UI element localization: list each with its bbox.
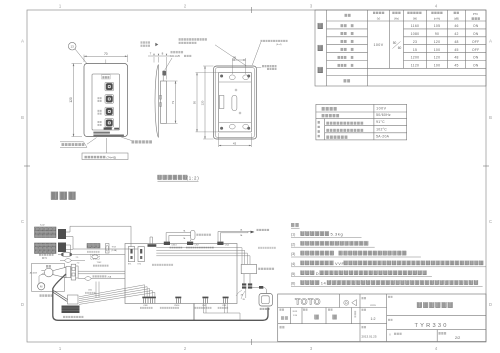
- svg-text:(1): (1): [291, 233, 295, 237]
- company cell: [389, 332, 402, 335]
- svg-text:B: B: [489, 115, 492, 120]
- opening cross bars: [219, 82, 252, 122]
- svg-text:5.3kg: 5.3kg: [331, 232, 344, 237]
- reel disc: [66, 267, 71, 278]
- svg-text:120: 120: [434, 40, 441, 44]
- svg-text:45: 45: [454, 48, 458, 52]
- svg-text:90: 90: [435, 32, 439, 36]
- dimension back box outer height: [200, 66, 213, 139]
- labels above back box: [179, 38, 247, 66]
- svg-text:100V: 100V: [374, 43, 384, 47]
- svg-text:48: 48: [454, 56, 458, 60]
- pcb bottom connector CN5: [202, 297, 208, 304]
- note (4): [291, 261, 486, 267]
- svg-text:120: 120: [200, 100, 204, 105]
- wire: ionizer to CN7: [190, 240, 192, 242]
- svg-text:43: 43: [233, 141, 237, 145]
- date cell: [362, 326, 377, 338]
- button 4 side label: [98, 121, 102, 123]
- svg-text:KT1: KT1: [128, 263, 131, 265]
- relay labels: [128, 263, 141, 265]
- note (3): [291, 251, 421, 257]
- button 2: [105, 95, 114, 104]
- svg-text:(dB): (dB): [454, 17, 459, 21]
- svg-text:1080: 1080: [411, 32, 420, 36]
- svg-text:ON: ON: [473, 24, 479, 28]
- pcb bottom labels: [140, 305, 228, 309]
- svg-text:(4): (4): [291, 262, 295, 266]
- heater 2 (PTC): [35, 243, 57, 254]
- svg-text:T102: T102: [97, 262, 103, 264]
- svg-text:1200: 1200: [411, 56, 420, 60]
- wiring title kessen-zu: [51, 192, 75, 200]
- main cord (bold wire): [53, 274, 268, 320]
- side view labels (cap top): [141, 41, 159, 46]
- power transformer: [241, 264, 274, 273]
- svg-text:B: B: [21, 115, 24, 120]
- svg-text:48: 48: [454, 40, 458, 44]
- label screws 2pcs: [254, 65, 277, 70]
- ionizer: [191, 230, 211, 239]
- svg-text:102°C: 102°C: [376, 127, 387, 131]
- secondary connectors: [242, 283, 252, 288]
- svg-text:(3): (3): [291, 252, 295, 256]
- pcb connector CN13: [164, 242, 170, 245]
- remarks cell: [280, 326, 285, 328]
- pcb board outline: [125, 244, 237, 304]
- note (5): [291, 271, 432, 277]
- heater 2 connector: [58, 243, 66, 253]
- svg-text:50/60Hz: 50/60Hz: [376, 113, 391, 117]
- svg-text:M4.1×25: M4.1×25: [171, 55, 181, 58]
- svg-text:91°C: 91°C: [376, 120, 385, 124]
- remote unit: [259, 294, 273, 307]
- svg-text:(5): (5): [291, 272, 295, 276]
- board fuse hatched: [87, 244, 100, 253]
- side profile plate: [155, 65, 158, 138]
- svg-text:ON: ON: [473, 64, 479, 68]
- remote front panel: [92, 74, 120, 130]
- cord to stepper motor: [54, 291, 68, 300]
- svg-text:TOTO: TOTO: [295, 296, 321, 306]
- wires CN5/CN3 down: [203, 304, 240, 320]
- svg-text:M: M: [40, 285, 43, 289]
- pcb nested bus wires: [156, 248, 250, 265]
- dimension 43: [219, 133, 252, 147]
- pcb bottom connector CN3: [223, 297, 229, 304]
- svg-text:(2): (2): [291, 242, 295, 246]
- svg-text:KT2: KT2: [138, 263, 141, 265]
- svg-text:13: 13: [71, 45, 75, 49]
- table: ratings/safety: [316, 104, 407, 139]
- label remote: [260, 308, 270, 310]
- center mark remote top: [105, 60, 107, 64]
- wire: heater 2 feed b: [66, 249, 73, 251]
- side slot: [219, 96, 224, 109]
- side screw: [162, 71, 166, 76]
- name cell: [388, 296, 453, 308]
- dimension 120 (front height): [69, 64, 82, 137]
- wall box (side): [160, 76, 167, 123]
- pcb connector CN4: [217, 242, 223, 245]
- label stepper motor: [63, 316, 83, 318]
- svg-text:(V): (V): [377, 17, 381, 21]
- svg-text:100V: 100V: [376, 106, 386, 110]
- balloon 13: [68, 42, 89, 66]
- svg-text:5A-20A: 5A-20A: [376, 134, 390, 138]
- svg-text:D: D: [489, 302, 492, 307]
- svg-text:mm: mm: [371, 303, 376, 307]
- caption remote appearance 1:2: [158, 175, 200, 181]
- thermal fuse symbols: [58, 252, 125, 257]
- scale cell: [362, 308, 376, 320]
- svg-text:S-02: S-02: [40, 225, 45, 227]
- back box opening: [219, 73, 252, 132]
- note (1): [291, 231, 362, 237]
- terminal bar: [71, 264, 78, 280]
- spec table labels: [322, 107, 364, 139]
- transformer secondary wires: [243, 274, 245, 284]
- dimensions 7 and 8: [148, 52, 171, 80]
- wires: terminal to pcb: [78, 270, 125, 272]
- svg-text:70: 70: [104, 52, 108, 56]
- thermal fuse lower: [60, 259, 85, 263]
- table remark row: [344, 79, 351, 82]
- svg-text:2/2: 2/2: [455, 336, 460, 340]
- remote mounting hole note box: [82, 153, 128, 160]
- heater 1 (PTC): [35, 227, 57, 238]
- svg-text:(6): (6): [291, 282, 295, 286]
- pcb bottom connector CN8 (comb): [142, 297, 156, 304]
- note (2): [291, 241, 375, 247]
- dimension 70 (front width): [84, 52, 128, 62]
- dimension 73 (box height): [167, 81, 178, 123]
- svg-text:TYR330: TYR330: [415, 323, 449, 329]
- svg-text:1160: 1160: [411, 24, 420, 28]
- wire: heater bus 2: [66, 237, 138, 250]
- svg-text:T913: T913: [112, 247, 116, 249]
- svg-text:1:2: 1:2: [371, 317, 376, 321]
- svg-text:91°C: 91°C: [42, 258, 47, 260]
- wire gauge callouts: [236, 290, 246, 301]
- svg-text:(Hz): (Hz): [394, 17, 399, 21]
- svg-text:ON: ON: [473, 32, 479, 36]
- wire: motor leads: [39, 273, 45, 283]
- pcb connector labels top: [170, 245, 276, 249]
- stepper motor box: [68, 295, 79, 304]
- mounting holes: [229, 75, 248, 129]
- svg-text:120: 120: [69, 97, 73, 103]
- svg-text:(1:2): (1:2): [187, 175, 200, 180]
- label thermistor: [257, 229, 270, 231]
- body fine print: [93, 132, 124, 137]
- plug: [41, 268, 53, 277]
- part number cell: [388, 319, 449, 330]
- pcb bottom connector CN16: [175, 297, 181, 304]
- label trans primary: [152, 264, 173, 266]
- svg-text:A: A: [21, 39, 24, 44]
- svg-text:1120: 1120: [411, 64, 420, 68]
- svg-text:23: 23: [413, 40, 417, 44]
- svg-text:50: 50: [393, 41, 397, 45]
- svg-text:100: 100: [434, 48, 441, 52]
- svg-text:ON: ON: [473, 56, 479, 60]
- svg-text:42: 42: [454, 32, 458, 36]
- spec table safety col (vertical): [318, 121, 320, 137]
- svg-text:95: 95: [192, 101, 196, 105]
- label product number: [121, 137, 152, 143]
- thermal fuse 102C (dashed box): [91, 254, 109, 266]
- wire: heater bus 1: [66, 226, 131, 246]
- svg-text:OFF: OFF: [472, 40, 480, 44]
- svg-text:(m³/h): (m³/h): [434, 18, 441, 21]
- table headers: [345, 11, 480, 20]
- svg-text:D: D: [21, 302, 24, 307]
- wire bundle stepper to pcb: [79, 285, 155, 305]
- panel top label: [102, 75, 111, 79]
- relay KT1: [128, 247, 134, 262]
- svg-text:45: 45: [454, 64, 458, 68]
- panel bottom logo marks: [104, 127, 119, 129]
- svg-text:25A: 25A: [108, 276, 112, 279]
- thermal fuse label 91C: [39, 253, 54, 260]
- current fuse 25A: [78, 275, 125, 280]
- wire: heater 2 feed a: [66, 245, 71, 255]
- dimension 36: [232, 56, 245, 74]
- svg-text:PTC: PTC: [473, 12, 478, 16]
- svg-text:A: A: [489, 39, 492, 44]
- label fan motor: [40, 294, 53, 296]
- back box outer: [214, 66, 257, 139]
- label free-dial (callout box): [60, 138, 97, 148]
- svg-text:CN13: CN13: [171, 245, 177, 247]
- projection symbol: [344, 300, 357, 306]
- svg-text:( ): ( ): [389, 334, 391, 336]
- pcb inner connector block: [148, 244, 157, 247]
- dimension back box inner height: [192, 73, 218, 132]
- board fuse 1.6A: [106, 244, 118, 254]
- power section box: [32, 264, 65, 292]
- spec table values: [376, 106, 391, 138]
- svg-text:60: 60: [398, 46, 402, 50]
- svg-text:100: 100: [434, 64, 441, 68]
- stepper motor body: [62, 306, 80, 314]
- svg-text:46: 46: [454, 24, 458, 28]
- wire: fan motor leads to CN1: [96, 282, 99, 298]
- svg-text:2013.01.25: 2013.01.25: [362, 334, 377, 338]
- cord reel horn: [53, 267, 66, 277]
- label dengen: [46, 265, 51, 267]
- svg-text:C: C: [21, 219, 24, 224]
- table: characteristics (tokusei-hyo): [315, 10, 486, 86]
- wire: connector drop: [245, 289, 247, 298]
- corner screws: [220, 75, 250, 130]
- wires into pcb inner connector: [150, 237, 153, 244]
- title block: [278, 294, 486, 342]
- svg-text:D: D: [316, 271, 320, 276]
- relay KT2: [138, 247, 144, 262]
- page cell: [439, 332, 461, 340]
- svg-text:OFF: OFF: [472, 48, 480, 52]
- center slot: [232, 96, 237, 111]
- svg-text:AC100V: AC100V: [30, 271, 38, 274]
- note (6): [291, 280, 483, 286]
- svg-text:CN16: CN16: [174, 305, 180, 307]
- pcb connector CN7: [187, 242, 193, 245]
- svg-text:C: C: [489, 219, 492, 224]
- wire: ionizer feed (double): [166, 229, 191, 241]
- heater 1 connector: [58, 229, 66, 239]
- remote front outer body: [84, 64, 128, 137]
- svg-text:VVF: VVF: [335, 261, 345, 266]
- svg-text:(74×45): (74×45): [107, 155, 117, 159]
- svg-text:36: 36: [233, 56, 237, 60]
- remote cable connector: [252, 286, 266, 294]
- wire: thermistor (double): [218, 229, 255, 242]
- approval cells: [280, 308, 357, 319]
- button 4: [105, 119, 114, 128]
- wire: vertical drop to bottom run: [193, 304, 195, 321]
- table function column rows: [341, 24, 347, 27]
- table label tokusei-hyo (vertical): [318, 23, 323, 73]
- svg-text:105: 105: [434, 24, 441, 28]
- button 3 side label: [98, 110, 102, 112]
- label wood screw M4.1x25: [165, 51, 192, 70]
- notes title: [291, 223, 300, 228]
- svg-text:(W): (W): [413, 17, 417, 21]
- button 2 side label: [98, 97, 102, 99]
- label CN1 fan: [85, 289, 95, 293]
- unit cell: [362, 297, 376, 307]
- svg-text:(1.6A): (1.6A): [112, 249, 118, 252]
- button 3: [105, 107, 114, 116]
- svg-text:73: 73: [171, 101, 175, 105]
- button 1: [105, 82, 114, 91]
- leader to mounting hole box: [106, 138, 108, 153]
- label conversion screw 4pcs: [252, 40, 287, 65]
- svg-text:120: 120: [434, 56, 441, 60]
- svg-text:14: 14: [321, 281, 327, 286]
- svg-text:15: 15: [413, 48, 417, 52]
- svg-text:(4×4): (4×4): [276, 43, 281, 46]
- fan motor M: [38, 283, 45, 290]
- small parts: [235, 89, 241, 114]
